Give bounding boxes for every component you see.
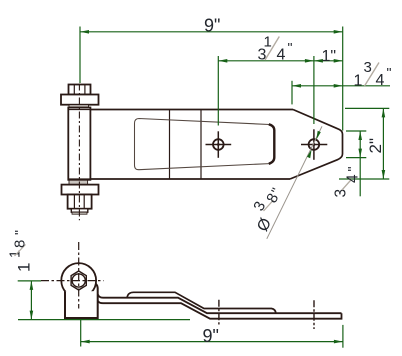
plate top edge xyxy=(68,109,293,111)
dimension 3/4 line xyxy=(358,131,362,196)
svg-text:3: 3 xyxy=(364,59,372,76)
svg-text:": " xyxy=(344,167,360,172)
strap pad top line (side view) xyxy=(127,292,276,313)
bolt barrel xyxy=(68,108,90,180)
pad right bold edge xyxy=(269,124,275,164)
dimension 9in top line xyxy=(80,30,343,34)
dimension 1in text xyxy=(322,48,337,65)
dimension 1-3/4 text xyxy=(354,59,392,90)
dimension 9in bottom text xyxy=(203,326,219,346)
dimension 9in top extension left xyxy=(79,27,81,84)
dimension 1-1/8 line xyxy=(30,281,34,320)
dimension 3/4 extension top xyxy=(346,130,366,132)
svg-text:1: 1 xyxy=(15,263,34,272)
dimension 3-1/4 text xyxy=(258,34,293,64)
dimension 1in line xyxy=(314,59,343,63)
svg-text:": " xyxy=(12,230,28,235)
svg-text:9": 9" xyxy=(203,326,219,346)
dimension 9in bottom extension left xyxy=(80,320,82,347)
dimension 9in top text xyxy=(204,15,220,35)
bolt thread stub xyxy=(71,209,88,215)
plate bottom edge xyxy=(68,178,290,180)
hole H2 tick (side view) xyxy=(313,300,315,329)
svg-text:3: 3 xyxy=(333,189,350,198)
svg-text:4: 4 xyxy=(376,72,385,89)
strap top line (side view) xyxy=(98,295,342,314)
dimension 9in top extension right xyxy=(342,27,344,131)
hole H2 circle xyxy=(309,139,320,150)
svg-text:4: 4 xyxy=(277,46,286,63)
dimension 2in extension top xyxy=(345,107,389,109)
dimension 9in bottom extension right xyxy=(342,325,344,348)
knuckle body xyxy=(65,284,98,319)
bolt bottom washer xyxy=(62,185,99,195)
hole H1 circle xyxy=(213,139,224,150)
svg-text:2": 2" xyxy=(366,138,385,154)
bolt top neck xyxy=(69,105,89,108)
svg-text:1: 1 xyxy=(8,250,24,258)
leader dia 3/8 text xyxy=(250,185,284,234)
svg-text:1: 1 xyxy=(264,34,272,51)
svg-text:": " xyxy=(387,65,392,81)
bolt bottom neck xyxy=(69,180,88,184)
knuckle horizontal centerline xyxy=(41,280,104,282)
dimension 3-1/4 extension left (hole H1) xyxy=(217,56,219,126)
knuckle pin circle xyxy=(72,274,85,287)
bend line right xyxy=(200,110,202,180)
svg-text:1": 1" xyxy=(322,48,337,65)
svg-text:4: 4 xyxy=(345,174,362,183)
hole H1 centerlines xyxy=(206,131,232,158)
dimension 1-1/8 extension top xyxy=(18,280,41,282)
dimension 3/4 extension bottom xyxy=(346,157,366,159)
knuckle hex nut xyxy=(71,271,86,290)
bolt centerline xyxy=(78,84,80,221)
svg-text:": " xyxy=(288,40,293,56)
dimension 2in line xyxy=(382,108,386,179)
dimension 1-3/4 line xyxy=(292,84,390,88)
knuckle vertical centerline xyxy=(78,242,80,309)
knuckle circle xyxy=(61,263,96,298)
strap bottom line (side view) xyxy=(98,301,342,319)
plate tapered right tip xyxy=(290,110,343,180)
hole H2 centerlines xyxy=(301,129,327,160)
dimension 9in bottom line xyxy=(81,340,343,344)
dimension 1-3/4 extension left xyxy=(291,81,293,105)
bolt hex head xyxy=(69,85,91,95)
bolt nut xyxy=(68,195,92,209)
dimension 3/4 text xyxy=(333,167,362,198)
dimension 2in text xyxy=(366,138,385,154)
pad (doubler plate) thin outline xyxy=(135,119,270,170)
svg-text:9": 9" xyxy=(204,15,220,35)
dimension 3-1/4 extension right (hole H2) xyxy=(313,56,315,124)
dimension 1-1/8 extension bottom xyxy=(18,319,190,321)
leader line dia 3/8 xyxy=(267,126,322,239)
svg-text:8: 8 xyxy=(12,240,29,248)
bend line left xyxy=(169,110,171,180)
dimension 3-1/4 line xyxy=(218,59,314,63)
svg-text:1: 1 xyxy=(354,73,363,90)
dimension 1-1/8 text xyxy=(8,230,34,272)
hole H1 tick (side view) xyxy=(218,300,220,325)
dimension 2in extension bottom xyxy=(339,178,389,180)
bolt top washer xyxy=(61,95,99,105)
